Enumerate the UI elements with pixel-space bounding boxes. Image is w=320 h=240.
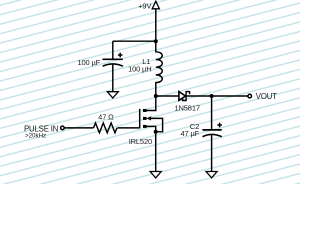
capacitor C1 plus sign [118, 53, 123, 58]
wire resistor to gate [117, 127, 139, 129]
ground (C1) [107, 92, 118, 98]
capacitor C1 bottom plate [103, 64, 123, 66]
transistor Q1 drain lead [145, 96, 156, 111]
svg-text:1N5817: 1N5817 [175, 104, 200, 113]
inductor L1 [156, 41, 162, 96]
svg-text:+9V: +9V [138, 2, 151, 11]
ground (C2) [206, 172, 217, 178]
diode D1 schottky cathode bar [183, 92, 190, 101]
capacitor C2 plus sign [217, 123, 222, 128]
capacitor C2 top plate [202, 129, 221, 131]
transistor Q1 channel bar top [143, 109, 147, 112]
transistor Q1 channel bar middle [143, 117, 147, 120]
junction rail-C2 [210, 94, 214, 98]
terminal PULSE IN [61, 126, 65, 130]
svg-text:47 µF: 47 µF [181, 129, 200, 138]
junction source-body [154, 130, 158, 134]
transistor Q1 body lead [150, 118, 162, 131]
wire output rail [156, 95, 248, 97]
wire source to ground [155, 132, 157, 172]
wire C1 top lead [112, 41, 114, 59]
power +9V symbol [152, 1, 159, 9]
transistor Q1 channel bar bottom [143, 125, 147, 128]
wire +9V to top junction [155, 9, 157, 41]
transistor Q1 arrow [147, 116, 152, 120]
diode D1 1N5817 triangle [179, 92, 186, 101]
transistor Q1 IRL520 gate line [139, 109, 141, 129]
capacitor C1 top plate [103, 58, 123, 60]
wire C2 to ground [211, 135, 213, 172]
wire C1 to ground [112, 65, 114, 92]
terminal VOUT [248, 94, 252, 98]
wire top rail to C1 [113, 40, 156, 42]
wire pulse in to resistor [64, 127, 93, 129]
transistor Q1 source lead [146, 126, 156, 131]
svg-text:100 µF: 100 µF [77, 58, 100, 67]
junction rail-drain [154, 94, 158, 98]
capacitor C2 bottom plate [203, 134, 222, 136]
junction top [154, 39, 158, 43]
svg-text:>20kHz: >20kHz [25, 133, 46, 140]
resistor R1 47 ohm [94, 123, 118, 133]
svg-text:IRL520: IRL520 [129, 137, 152, 146]
ground (source) [150, 172, 161, 178]
svg-text:47 Ω: 47 Ω [98, 112, 114, 121]
svg-text:100 µH: 100 µH [128, 65, 151, 74]
watermark background [0, 0, 300, 184]
wire C2 top lead [211, 96, 213, 130]
svg-text:VOUT: VOUT [256, 92, 277, 101]
